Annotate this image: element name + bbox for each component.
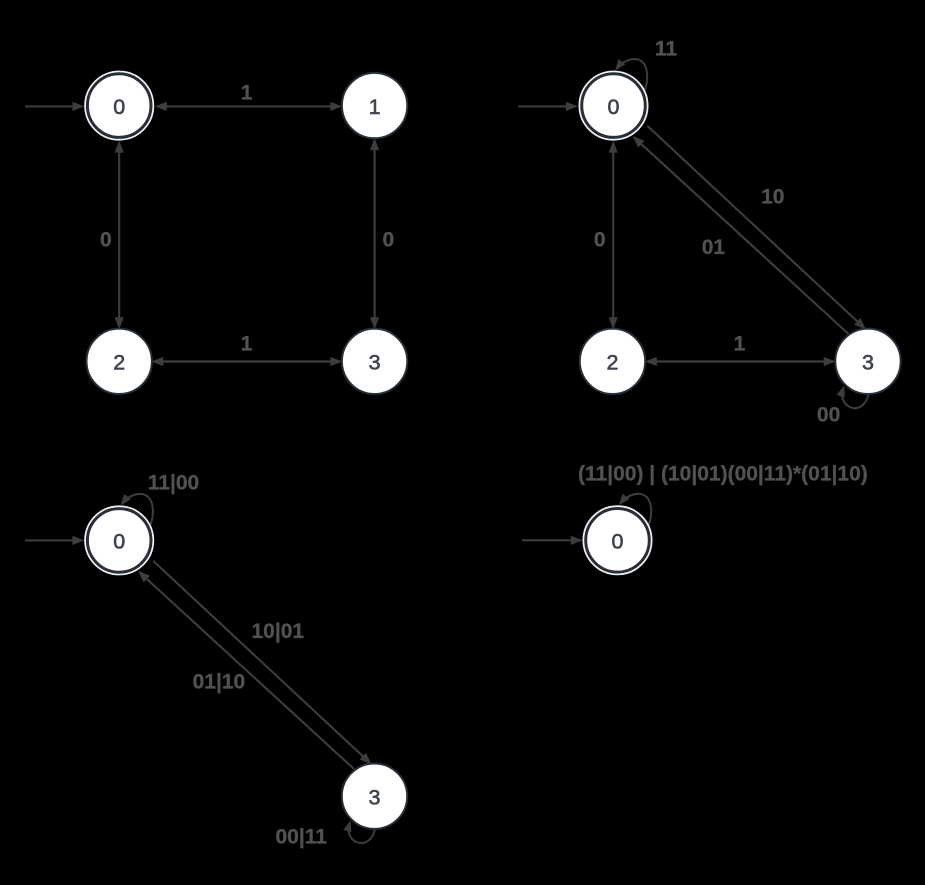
svg-text:2: 2 xyxy=(607,351,619,375)
self-loop 00 on state 3 (top-right DFA) xyxy=(817,386,869,427)
state 2 (top-left DFA) xyxy=(87,329,152,394)
start arrow into state 0 (bottom-left DFA) xyxy=(25,536,84,545)
svg-text:0: 0 xyxy=(612,530,624,554)
svg-text:10: 10 xyxy=(761,186,784,209)
edge 2-3 label 1 (top-left DFA) xyxy=(151,332,342,366)
edge 2-3 label 1 (top-right DFA) xyxy=(645,332,836,366)
edge 1-3 label 0 (top-left DFA) xyxy=(370,138,394,329)
svg-text:0: 0 xyxy=(113,95,125,119)
svg-text:00|11: 00|11 xyxy=(275,825,327,848)
self-loop 00|11 on state 3 (bottom-left DFA) xyxy=(275,820,375,848)
svg-text:3: 3 xyxy=(369,785,381,809)
edge 0-3 label 10|01 (bottom-left DFA) xyxy=(153,561,371,764)
svg-text:0: 0 xyxy=(383,228,395,251)
self-loop on state 0 (bottom-right DFA) xyxy=(619,494,651,526)
state 3 (bottom-left DFA) xyxy=(342,764,407,829)
state 0 accepting (top-right DFA) xyxy=(579,72,647,140)
state 2 (top-right DFA) xyxy=(580,329,645,394)
svg-text:3: 3 xyxy=(862,351,874,375)
svg-text:0: 0 xyxy=(608,95,620,119)
svg-text:01: 01 xyxy=(702,236,726,259)
edge 0-1 label 1 (top-left DFA) xyxy=(155,82,342,111)
regex label (11|00) | (10|01)(00|11)*(01|10) xyxy=(578,463,868,486)
svg-text:1: 1 xyxy=(241,332,253,355)
start arrow into state 0 (top-right DFA) xyxy=(518,102,578,111)
edge 3-0 label 01 (top-right DFA) xyxy=(633,136,849,334)
svg-text:01|10: 01|10 xyxy=(193,671,246,694)
self-loop 11|00 on state 0 (bottom-left DFA) xyxy=(121,471,200,526)
state 0 accepting (bottom-left DFA) xyxy=(85,506,153,574)
edge 0-3 label 10 (top-right DFA) xyxy=(648,126,867,330)
start arrow into state 0 (bottom-right DFA) xyxy=(522,536,583,545)
state 3 (top-right DFA) xyxy=(835,329,900,394)
self-loop 11 on state 0 (top-right DFA) xyxy=(615,38,677,92)
svg-text:11|00: 11|00 xyxy=(148,471,199,494)
svg-text:1: 1 xyxy=(734,332,746,355)
svg-text:2: 2 xyxy=(113,351,125,375)
svg-text:10|01: 10|01 xyxy=(252,620,305,643)
svg-text:11: 11 xyxy=(655,38,678,61)
svg-text:1: 1 xyxy=(241,82,253,105)
edge 0-2 label 0 (top-left DFA) xyxy=(100,141,124,330)
svg-text:(11|00) | (10|01)(00|11)*(01|1: (11|00) | (10|01)(00|11)*(01|10) xyxy=(578,463,868,486)
start arrow into state 0 (top-left DFA) xyxy=(25,102,84,111)
edge 3-0 label 01|10 (bottom-left DFA) xyxy=(138,571,354,769)
svg-text:0: 0 xyxy=(113,530,125,554)
svg-text:0: 0 xyxy=(100,228,112,251)
state 1 (top-left DFA) xyxy=(342,73,407,138)
edge 0-2 label 0 (top-right DFA) xyxy=(594,141,618,330)
svg-text:00: 00 xyxy=(817,404,840,427)
svg-text:3: 3 xyxy=(369,351,381,375)
svg-text:0: 0 xyxy=(594,228,606,251)
svg-text:1: 1 xyxy=(369,95,381,119)
state 0 accepting (bottom-right DFA) xyxy=(583,506,651,574)
state 3 (top-left DFA) xyxy=(342,329,407,394)
state 0 accepting (top-left DFA) xyxy=(85,72,153,140)
